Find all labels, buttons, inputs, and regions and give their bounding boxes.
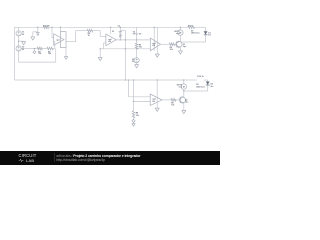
svg-text:http://circuitlab.com/c/j3kvtp: http://circuitlab.com/c/j3kvtpws/4p (56, 158, 105, 162)
svg-text:LAB: LAB (26, 158, 34, 163)
